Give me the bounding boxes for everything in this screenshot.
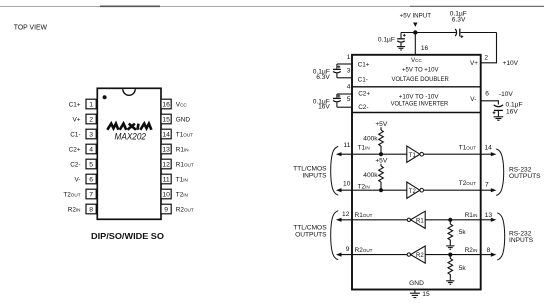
resistor 400k (2) (379, 166, 384, 190)
arrowhead T2OUT (491, 188, 497, 192)
pin box 5 (86, 159, 96, 169)
svg-text:T2OUT: T2OUT (459, 180, 476, 187)
ground at C3 (494, 117, 504, 120)
wire R2IN row (425, 254, 481, 256)
wire +5V stub 1 (380, 127, 382, 130)
svg-text:T2IN: T2IN (358, 184, 370, 191)
svg-text:MAX202: MAX202 (115, 132, 147, 142)
svg-text:TTL/CMOS: TTL/CMOS (293, 224, 327, 231)
svg-text:11: 11 (344, 142, 351, 149)
svg-text:R2IN: R2IN (68, 206, 81, 213)
svg-text:4: 4 (89, 147, 93, 154)
capacitor C3 0.1uF 16V at V- (494, 105, 503, 117)
svg-text:T1OUT: T1OUT (459, 145, 476, 152)
svg-text:1: 1 (347, 54, 351, 61)
svg-text:9: 9 (164, 207, 168, 214)
svg-text:T1IN: T1IN (358, 145, 370, 152)
pin box 8 (86, 204, 96, 214)
IC U1 MAX202 main box (352, 55, 481, 290)
svg-text:R2: R2 (416, 253, 424, 259)
svg-text:R1IN: R1IN (176, 146, 189, 153)
svg-text:OUTPUTS: OUTPUTS (509, 173, 541, 180)
wire T2OUT stub (481, 189, 492, 191)
resistor 5k (2) (448, 255, 453, 281)
wire VCC pin 16 drop (414, 33, 416, 56)
pin box 2 (86, 114, 96, 124)
svg-text:13: 13 (162, 147, 170, 154)
pin 6 stub wire (481, 101, 499, 105)
plus sign of C2 (338, 95, 341, 98)
brace TTL/CMOS inputs (331, 146, 339, 195)
svg-text:8: 8 (89, 207, 93, 214)
junction R1IN/5k (448, 218, 452, 222)
ground at 5k (1) (446, 246, 454, 249)
svg-text:+5V TO +10V: +5V TO +10V (402, 66, 439, 73)
plus sign of bypass cap (403, 34, 406, 37)
svg-text:12: 12 (162, 162, 170, 169)
wire R2OUT row (339, 254, 408, 256)
capacitor bypass 0.1uF at VCC (397, 33, 405, 47)
buffer T2 (407, 182, 420, 198)
svg-text:10: 10 (162, 192, 170, 199)
brace TTL/CMOS outputs (331, 211, 339, 260)
svg-text:5k: 5k (459, 265, 467, 272)
receiver R1 (407, 218, 410, 221)
svg-text:10: 10 (343, 181, 351, 188)
svg-text:R1OUT: R1OUT (355, 212, 373, 219)
svg-text:5: 5 (89, 162, 93, 169)
pin box 13 (161, 144, 171, 154)
svg-text:16: 16 (421, 45, 429, 52)
svg-text:T1OUT: T1OUT (176, 131, 193, 138)
svg-text:-10V: -10V (499, 91, 514, 98)
svg-text:V+: V+ (73, 116, 81, 123)
brace RS-232 inputs (497, 213, 505, 260)
svg-text:+5V INPUT: +5V INPUT (400, 12, 431, 19)
svg-text:R1: R1 (416, 218, 424, 224)
svg-text:C1-: C1- (70, 131, 80, 138)
pin box 15 (161, 114, 171, 124)
pin-1 dot (103, 95, 107, 99)
svg-text:C1-: C1- (358, 77, 368, 84)
svg-text:C1+: C1+ (358, 62, 370, 69)
resistor 5k (1) (448, 220, 453, 246)
wire T1OUT stub (481, 153, 492, 155)
top rule (0, 6, 100, 8)
svg-text:16V: 16V (506, 109, 518, 116)
svg-text:T2: T2 (409, 189, 417, 195)
svg-text:T2OUT: T2OUT (63, 191, 80, 198)
svg-text:R1IN: R1IN (465, 212, 478, 219)
svg-text:C1+: C1+ (69, 101, 81, 108)
svg-text:R2OUT: R2OUT (355, 247, 373, 254)
wire T2IN row (339, 189, 407, 191)
arrowhead T2IN (336, 188, 342, 192)
svg-text:0.1µF: 0.1µF (506, 102, 523, 109)
wire +5V rail left (401, 32, 456, 34)
plus sign of C4 (460, 35, 463, 38)
svg-text:15: 15 (422, 291, 430, 298)
svg-text:VOLTAGE INVERTER: VOLTAGE INVERTER (391, 101, 449, 108)
wire R1OUT row (339, 219, 408, 221)
svg-text:TTL/CMOS: TTL/CMOS (293, 165, 327, 172)
brace RS-232 outputs (496, 149, 504, 196)
svg-text:GND: GND (176, 116, 191, 123)
svg-text:C2+: C2+ (69, 146, 81, 153)
svg-text:R2IN: R2IN (465, 247, 478, 254)
svg-text:7: 7 (485, 182, 489, 189)
svg-text:R2OUT: R2OUT (176, 206, 194, 213)
svg-text:C2-: C2- (70, 161, 80, 168)
svg-text:16V: 16V (318, 104, 330, 111)
svg-text:+10V: +10V (503, 60, 519, 67)
svg-text:2: 2 (484, 54, 488, 61)
arrowhead R2IN (491, 253, 497, 257)
wire +10V corner (481, 33, 497, 63)
pin box 9 (161, 204, 171, 214)
wire R1IN row (425, 219, 481, 221)
pin 3 stub wire (337, 77, 352, 79)
pin box 3 (86, 129, 96, 139)
svg-text:400k: 400k (363, 172, 378, 179)
svg-text:6: 6 (89, 177, 93, 184)
svg-text:3: 3 (347, 67, 351, 74)
junction R2IN/5k (448, 253, 452, 257)
divider doubler/inverter (352, 86, 481, 88)
plus sign of C1 (338, 65, 341, 68)
pin box 6 (86, 174, 96, 184)
svg-text:5k: 5k (459, 229, 467, 236)
svg-text:1: 1 (89, 102, 93, 109)
svg-text:TOP VIEW: TOP VIEW (14, 23, 47, 32)
svg-text:V+: V+ (470, 60, 478, 67)
svg-text:VCC: VCC (411, 57, 422, 64)
wire +5V stub 2 (380, 164, 382, 166)
svg-text:+5V: +5V (375, 158, 388, 165)
wire +5V rail right (461, 32, 497, 34)
IC package U1 MAX202 body (97, 88, 161, 219)
svg-text:T1IN: T1IN (176, 176, 188, 183)
wire T2OUT row (424, 189, 481, 191)
capacitor C2 0.1uF 16V (333, 94, 341, 107)
receiver R2 (407, 253, 410, 256)
svg-text:0.1µF: 0.1µF (378, 36, 395, 43)
arrowhead R1OUT (336, 218, 342, 222)
svg-text:INPUTS: INPUTS (302, 172, 327, 179)
svg-text:400k: 400k (363, 135, 378, 142)
pin 4 stub wire (337, 93, 352, 95)
svg-text:INPUTS: INPUTS (509, 237, 534, 244)
wire R1IN stub (481, 219, 492, 221)
svg-text:15: 15 (162, 117, 170, 124)
pin box 7 (86, 189, 96, 199)
pin box 12 (161, 159, 171, 169)
+5V input arrow (413, 23, 417, 27)
ground at bypass cap (397, 47, 405, 50)
svg-text:GND: GND (409, 280, 424, 287)
svg-text:4: 4 (347, 83, 351, 90)
svg-text:DIP/SO/WIDE SO: DIP/SO/WIDE SO (91, 231, 165, 241)
ground symbol pin 15 (410, 293, 420, 297)
svg-text:16: 16 (162, 102, 170, 109)
svg-text:VCC: VCC (176, 101, 188, 108)
pin box 11 (161, 174, 171, 184)
MAXIM logo (107, 124, 151, 130)
pin box 10 (161, 189, 171, 199)
pin box 14 (161, 129, 171, 139)
ground at 5k (2) (446, 281, 454, 284)
svg-text:6.3V: 6.3V (452, 17, 466, 24)
junction +5V input node (413, 30, 417, 34)
svg-text:C2-: C2- (358, 104, 368, 111)
buffer T1 (407, 146, 420, 162)
wire T1OUT row (424, 153, 481, 155)
pin box 4 (86, 144, 96, 154)
svg-text:6.3V: 6.3V (316, 74, 330, 81)
svg-text:R1OUT: R1OUT (176, 161, 194, 168)
pin box 1 (86, 99, 96, 109)
pin box 16 (161, 99, 171, 109)
plus sign of C3 (493, 111, 496, 114)
svg-text:11: 11 (163, 177, 170, 184)
svg-text:14: 14 (162, 132, 170, 139)
svg-text:3: 3 (89, 132, 93, 139)
svg-text:C2+: C2+ (358, 91, 370, 98)
svg-text:V-: V- (74, 176, 80, 183)
capacitor C1 0.1uF 6.3V (333, 64, 341, 78)
pin 1 stub wire (337, 63, 352, 65)
svg-text:6: 6 (485, 91, 489, 98)
svg-text:14: 14 (485, 145, 493, 152)
svg-text:T1: T1 (409, 153, 417, 159)
arrowhead R1IN (491, 218, 497, 222)
svg-text:12: 12 (342, 211, 350, 218)
svg-text:2: 2 (89, 117, 93, 124)
wire R2IN stub (481, 254, 492, 256)
svg-text:8: 8 (487, 247, 491, 254)
svg-text:V-: V- (470, 96, 476, 103)
arrowhead T1IN (336, 152, 342, 156)
divider inverter/buffers (352, 112, 481, 114)
svg-text:5: 5 (347, 96, 351, 103)
arrowhead R2OUT (336, 253, 342, 257)
svg-text:VOLTAGE DOUBLER: VOLTAGE DOUBLER (392, 76, 450, 83)
package notch (123, 89, 135, 95)
svg-text:T2IN: T2IN (176, 191, 188, 198)
pin 5 stub wire (337, 106, 352, 108)
resistor 400k (1) (379, 130, 384, 154)
junction T1IN/pullup (379, 152, 383, 156)
svg-text:7: 7 (89, 192, 93, 199)
arrowhead T1OUT (491, 152, 497, 156)
svg-text:9: 9 (346, 246, 350, 253)
svg-text:OUTPUTS: OUTPUTS (295, 231, 327, 238)
wire T1IN row (339, 153, 407, 155)
junction T2IN/pullup (379, 188, 383, 192)
ground pin 15 stub (414, 290, 416, 293)
svg-text:+10V TO -10V: +10V TO -10V (399, 94, 439, 101)
svg-text:+5V: +5V (375, 121, 388, 128)
